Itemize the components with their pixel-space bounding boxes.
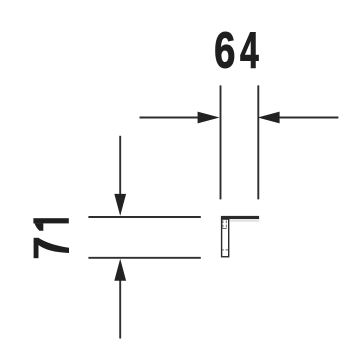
svg-text:6: 6 [214, 21, 235, 79]
svg-text:4: 4 [240, 22, 259, 79]
